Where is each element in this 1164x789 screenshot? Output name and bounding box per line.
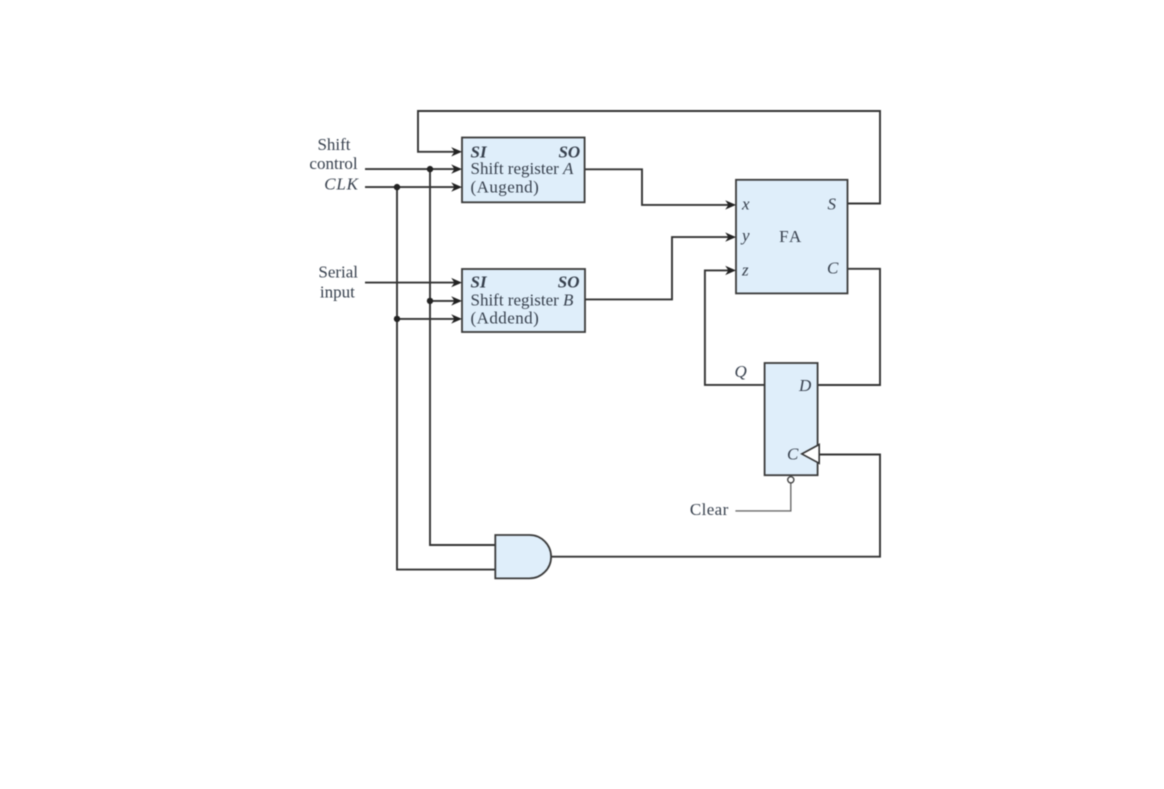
wire Clear to flip-flop clear bubble	[735, 483, 790, 511]
svg-text:Shift: Shift	[317, 135, 350, 154]
wire SO of register A to x input of FA	[585, 169, 734, 205]
register A box	[462, 138, 585, 203]
arrowhead into y of FA	[725, 232, 736, 241]
full adder FA box	[736, 180, 848, 294]
arrowhead CLK into register A	[451, 182, 462, 191]
D flip-flop box	[765, 363, 818, 475]
svg-text:SO: SO	[558, 273, 580, 292]
svg-text:y: y	[740, 226, 750, 245]
wire shift-control vertical to AND gate top input	[430, 169, 495, 545]
wire Serial input to SI of register B	[365, 282, 460, 284]
wire CLK tap to register B	[397, 318, 460, 320]
wire CLK vertical to AND gate bottom input	[397, 187, 495, 569]
arrowhead serial input into register B	[451, 278, 462, 287]
arrowhead into x of FA	[725, 200, 736, 209]
wire SO of register B to y input of FA	[585, 237, 734, 299]
register B box	[462, 269, 585, 332]
junction dot CLK at register B	[394, 316, 400, 322]
svg-text:SI: SI	[471, 273, 488, 292]
svg-text:S: S	[828, 194, 837, 213]
arrowhead CLK into register B	[451, 314, 462, 323]
svg-text:Shift register A: Shift register A	[471, 159, 575, 178]
arrowhead shift control into register A	[451, 164, 462, 173]
wire Q output of flip-flop to z input of FA	[705, 270, 765, 385]
AND gate G1	[495, 535, 551, 578]
svg-text:z: z	[741, 261, 749, 280]
arrowhead shift control into register B	[451, 296, 462, 305]
svg-text:(Addend): (Addend)	[471, 308, 540, 327]
junction dot CLK top	[394, 184, 400, 190]
wire CLK to register A	[365, 186, 460, 188]
svg-text:FA: FA	[779, 227, 803, 246]
wire Shift control to register A	[365, 168, 460, 170]
junction dot shift control at register B	[427, 298, 433, 304]
svg-text:input: input	[320, 283, 355, 302]
svg-text:D: D	[798, 376, 812, 395]
svg-text:Serial: Serial	[318, 262, 358, 281]
flip-flop clear bubble	[788, 477, 794, 483]
svg-text:Clear: Clear	[690, 500, 729, 519]
wire C output of FA to D input of flip-flop	[818, 269, 880, 385]
arrowhead into SI of register A	[451, 147, 462, 156]
junction dot shift control top	[427, 166, 433, 172]
svg-text:C: C	[787, 445, 799, 464]
svg-text:C: C	[827, 259, 839, 278]
arrowhead into z of FA	[725, 266, 736, 275]
svg-text:Shift register B: Shift register B	[471, 290, 575, 309]
svg-text:CLK: CLK	[324, 175, 359, 194]
svg-text:x: x	[741, 194, 750, 213]
svg-text:(Augend): (Augend)	[471, 177, 540, 196]
flip-flop clock wedge	[802, 445, 819, 464]
svg-text:control: control	[309, 154, 357, 173]
svg-text:Q: Q	[735, 362, 747, 381]
wire AND gate output to clock input of flip-flop	[551, 455, 880, 557]
wire S-output feedback to SI of register A	[418, 111, 880, 204]
wire shift-control tap to register B	[430, 300, 460, 302]
